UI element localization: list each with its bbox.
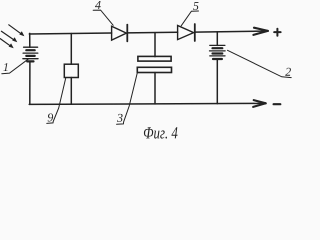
diode D4 triangle (anode) xyxy=(112,26,127,40)
wire: top bus segment from diode D5 to + output arrow xyxy=(195,30,264,33)
wire: left branch upper stub to solar battery 1 xyxy=(29,33,31,47)
wire: battery 2 branch, lower stub to bottom bus xyxy=(216,59,218,104)
label 1 (solar battery reference numeral) xyxy=(3,63,7,71)
leader line for label 4 xyxy=(93,10,113,25)
wire: capacitor 3 branch, lower stub to bottom bus xyxy=(154,73,156,104)
wire: capacitor 3 branch, upper stub from top bus xyxy=(154,33,156,57)
wire: battery 2 branch, upper stub from top bus xyxy=(216,32,218,46)
wire: top bus segment from left corner to diode D4 anode xyxy=(29,33,111,34)
- output arrowhead (bottom right) xyxy=(253,100,266,107)
leader line for label 2 xyxy=(228,50,292,77)
light ray arrow (bottom) onto solar battery xyxy=(0,39,14,49)
label 5 (diode reference numeral) xyxy=(193,2,198,10)
solar battery 1 plates (long thin / short thick alternating) xyxy=(23,47,38,61)
wire: top bus segment between diode D4 and diode D5 xyxy=(127,31,177,34)
leader line for label 5 xyxy=(181,11,198,26)
label 2 (battery reference numeral) xyxy=(285,68,291,76)
diode D5 triangle (anode) xyxy=(178,26,194,40)
label 3 (capacitor reference numeral) xyxy=(117,114,123,122)
light ray arrow (middle) onto solar battery xyxy=(1,31,17,42)
wire: branch of block 9, upper stub from top bus xyxy=(70,34,72,65)
leader line for label 3 xyxy=(117,72,138,124)
wire: bottom bus (minus rail) xyxy=(29,103,262,104)
minus terminal symbol xyxy=(274,103,281,105)
leader line for label 9 xyxy=(47,78,66,124)
capacitor 3 upper plate (hollow rectangle) xyxy=(138,56,171,61)
battery 2 plates (long thin / short thick alternating) xyxy=(210,45,226,59)
block 9 (rectangle component) xyxy=(64,64,78,77)
plus terminal symbol xyxy=(274,29,280,36)
label 4 (diode reference numeral) xyxy=(95,1,101,9)
figure caption Фиг. 4 xyxy=(144,127,178,138)
+ output arrowhead (top right) xyxy=(253,28,268,35)
wire: branch of block 9, lower stub to bottom bus xyxy=(70,78,72,105)
wire: left branch lower stub from solar battery 1 to bottom bus xyxy=(29,61,31,104)
leader line for label 1 xyxy=(2,59,29,74)
diode D5 cathode bar xyxy=(194,24,196,41)
capacitor 3 lower plate (hollow rectangle) xyxy=(137,67,171,72)
diode D4 cathode bar xyxy=(126,25,128,42)
label 9 (block reference numeral) xyxy=(48,114,53,122)
light ray arrow (top) onto solar battery xyxy=(9,25,25,36)
